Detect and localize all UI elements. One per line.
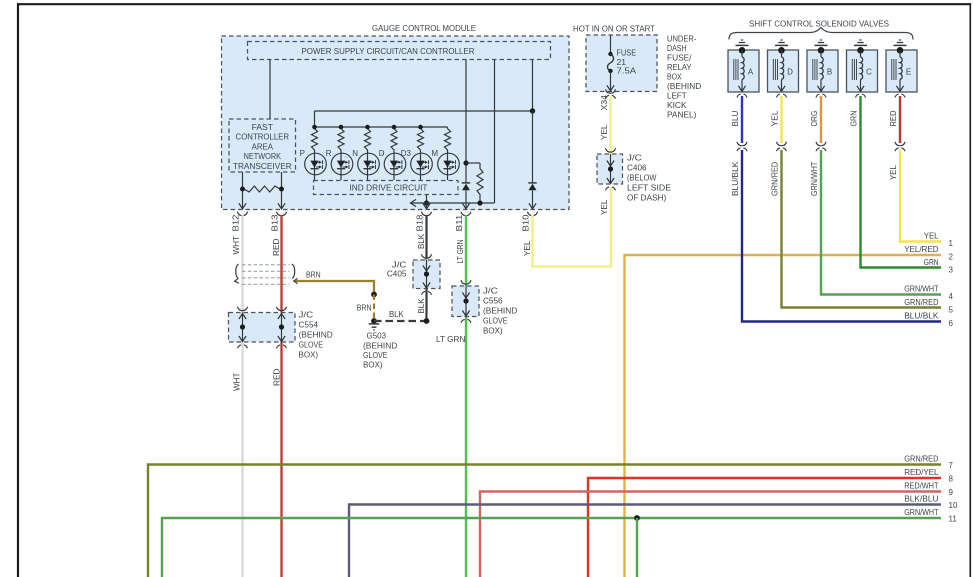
connector below solenoid C	[856, 94, 866, 97]
connector mid wire solenoid E	[895, 142, 905, 146]
svg-text:M: M	[431, 149, 438, 158]
svg-text:UNDER-: UNDER-	[667, 34, 697, 44]
wire B11 feed	[465, 60, 467, 183]
svg-text:D3: D3	[401, 149, 412, 158]
under-dash fuse/relay box	[586, 35, 657, 92]
LED M	[438, 153, 460, 175]
C554 internal WHT path	[242, 313, 244, 343]
wire YEL/RED line 2	[625, 255, 942, 577]
solenoid valve B	[807, 50, 838, 92]
svg-text:TRANSCEIVER: TRANSCEIVER	[233, 161, 292, 171]
svg-text:GLOVE: GLOVE	[363, 350, 388, 360]
svg-text:BLK: BLK	[416, 234, 426, 249]
LED D	[384, 153, 406, 175]
svg-text:B18: B18	[415, 214, 425, 231]
svg-text:3: 3	[949, 266, 954, 275]
svg-text:LT GRN: LT GRN	[436, 334, 465, 344]
svg-text:BOX: BOX	[667, 72, 682, 82]
connector cups above C554	[238, 307, 248, 311]
arrow off-page left	[411, 199, 417, 206]
connector cup above C405	[422, 254, 432, 258]
svg-text:D: D	[787, 68, 793, 77]
LED P	[305, 153, 327, 175]
coil solenoid E	[899, 50, 901, 57]
wire power supply to node C	[532, 60, 534, 112]
coil solenoid A	[741, 50, 743, 57]
svg-text:YEL: YEL	[599, 199, 609, 215]
wire BRN dashed to ground	[373, 295, 375, 319]
node B18 bus	[424, 200, 429, 205]
svg-text:A: A	[748, 68, 754, 77]
junction connector C556 box	[452, 286, 479, 317]
node BRN junction	[371, 292, 377, 298]
wire GRN/WHT solenoid B	[821, 150, 941, 295]
svg-text:BLU: BLU	[730, 111, 740, 127]
diode B10	[532, 111, 534, 183]
svg-text:GRN/WHT: GRN/WHT	[904, 284, 939, 294]
svg-text:YEL: YEL	[522, 240, 532, 256]
page border frame	[17, 3, 971, 5]
svg-text:BOX): BOX)	[363, 360, 383, 370]
svg-text:11: 11	[949, 515, 958, 524]
pin B10 arrow	[529, 203, 536, 209]
connector pin B13	[277, 212, 287, 216]
wire LT GRN B11 upper	[465, 215, 467, 286]
svg-text:OF DASH): OF DASH)	[627, 193, 666, 203]
svg-text:J/C: J/C	[483, 286, 498, 296]
wire YEL fuse to C406	[609, 97, 612, 155]
node bus R	[339, 125, 344, 130]
wire BLU solenoid A	[741, 96, 743, 143]
pin B13 arrow	[278, 203, 285, 209]
svg-text:DASH: DASH	[667, 43, 687, 53]
node bus D3	[418, 125, 423, 130]
svg-text:LEFT: LEFT	[667, 91, 687, 101]
coil solenoid B	[820, 50, 822, 57]
connector pin B12	[238, 212, 248, 216]
fast controller area network transceiver box	[229, 119, 296, 172]
svg-text:C554: C554	[299, 320, 319, 330]
wire GRN/RED solenoid D	[782, 150, 942, 308]
svg-text:GRN: GRN	[848, 111, 858, 127]
LED R	[331, 153, 353, 175]
LED D3	[411, 153, 433, 175]
svg-text:BRN: BRN	[306, 270, 321, 280]
svg-text:GRN/RED: GRN/RED	[904, 297, 938, 307]
junction connector C406 box	[597, 154, 623, 184]
svg-text:(BEHIND: (BEHIND	[363, 341, 397, 351]
svg-text:GRN/RED: GRN/RED	[904, 454, 938, 464]
wire GRN/WHT line 11	[162, 518, 941, 577]
svg-text:HOT IN ON OR START: HOT IN ON OR START	[573, 24, 656, 34]
svg-text:AREA: AREA	[252, 141, 274, 151]
wire YEL solenoid E	[900, 150, 941, 242]
wire RED B13 run	[280, 215, 282, 577]
resistor LED R	[338, 127, 344, 152]
wire ORG solenoid B	[820, 96, 822, 143]
svg-text:GRN/WHT: GRN/WHT	[809, 161, 819, 196]
wire power supply to transceiver	[269, 60, 271, 120]
svg-text:9: 9	[949, 488, 954, 497]
coil solenoid D	[781, 50, 783, 57]
gauge control module box	[222, 36, 570, 210]
svg-text:KICK: KICK	[667, 100, 687, 110]
svg-text:N: N	[352, 149, 358, 158]
resistor B11 pull	[477, 167, 483, 196]
svg-text:R: R	[326, 149, 332, 158]
svg-text:C405: C405	[387, 269, 407, 279]
svg-text:RED/WHT: RED/WHT	[904, 481, 939, 491]
connector cup below C556	[461, 319, 471, 322]
svg-text:SHIFT CONTROL SOLENOID VALVES: SHIFT CONTROL SOLENOID VALVES	[749, 19, 889, 29]
solenoid valve C	[847, 50, 878, 92]
svg-text:C: C	[866, 68, 872, 77]
svg-text:8: 8	[949, 475, 954, 484]
connector X34	[606, 89, 616, 93]
connector cup above C556	[461, 280, 471, 284]
fuse 21 7.5A	[610, 35, 612, 54]
node bus P	[312, 125, 317, 130]
connector below solenoid D	[777, 94, 787, 97]
svg-text:7.5A: 7.5A	[617, 66, 637, 76]
svg-text:(BELOW: (BELOW	[627, 173, 657, 183]
wire RED/YEL line 8	[588, 478, 941, 577]
svg-text:GLOVE: GLOVE	[299, 340, 324, 350]
svg-text:FUSE: FUSE	[617, 48, 637, 58]
svg-text:YEL: YEL	[769, 110, 779, 126]
svg-text:BLK: BLK	[389, 309, 404, 319]
svg-text:YEL: YEL	[888, 165, 898, 180]
svg-text:PANEL): PANEL)	[667, 110, 697, 120]
wire WHT B12 run	[241, 215, 243, 577]
pin B18 arrow	[423, 203, 430, 209]
svg-text:RELAY: RELAY	[667, 62, 692, 72]
svg-text:1: 1	[949, 239, 954, 248]
svg-text:(BEHIND: (BEHIND	[667, 81, 701, 91]
node resistor left	[240, 187, 245, 192]
svg-text:B12: B12	[231, 214, 241, 231]
svg-text:NETWORK: NETWORK	[244, 151, 282, 161]
svg-text:BLK: BLK	[416, 298, 426, 313]
svg-text:CONTROLLER: CONTROLLER	[236, 132, 290, 142]
wire BLU/BLK solenoid A	[742, 150, 941, 322]
svg-text:B: B	[827, 68, 832, 77]
C554 internal RED path	[281, 313, 283, 343]
svg-text:FUSE/: FUSE/	[667, 53, 692, 63]
svg-text:D: D	[379, 149, 385, 158]
svg-text:6: 6	[949, 319, 954, 328]
connector mid wire solenoid D	[777, 142, 787, 146]
wire transceiver pin B13 leg	[281, 172, 283, 209]
svg-text:P: P	[300, 149, 305, 158]
connector mid wire solenoid B	[816, 142, 826, 146]
svg-text:7: 7	[949, 461, 954, 470]
svg-text:GRN/RED: GRN/RED	[769, 162, 779, 196]
wire internal feed bus	[315, 110, 533, 112]
ground G503	[371, 318, 377, 324]
node bus D	[392, 125, 397, 130]
svg-text:(BEHIND: (BEHIND	[483, 306, 517, 316]
pin B11 arrow	[462, 203, 469, 209]
svg-text:C556: C556	[483, 296, 503, 306]
resistor LED D3	[418, 127, 424, 152]
svg-text:YEL: YEL	[599, 124, 609, 140]
svg-text:BOX): BOX)	[483, 326, 503, 336]
svg-text:RED: RED	[272, 369, 282, 387]
wire GRN/RED line 7	[148, 465, 941, 577]
ground solenoid E	[894, 44, 907, 46]
connector below solenoid B	[816, 94, 826, 97]
solenoid valve A	[728, 50, 759, 92]
resistor LED D	[391, 127, 397, 152]
IND drive circuit box	[314, 181, 459, 195]
connector cups below C554	[238, 345, 248, 348]
svg-text:YEL/RED: YEL/RED	[904, 244, 938, 254]
svg-text:J/C: J/C	[627, 153, 642, 163]
wire BLK/BLU line 10	[349, 505, 941, 577]
svg-text:BLK/BLU: BLK/BLU	[904, 494, 938, 504]
wire internal bus to off-page	[411, 202, 495, 204]
solenoid valve D	[768, 50, 799, 92]
arrow BRN tap	[294, 278, 298, 283]
svg-text:RED/YEL: RED/YEL	[904, 467, 939, 477]
svg-text:RED: RED	[271, 239, 281, 257]
ground solenoid C	[854, 44, 867, 46]
coil solenoid C	[860, 50, 862, 57]
connector pass-through ghost	[242, 264, 290, 266]
node bus N	[365, 125, 370, 130]
wire B18 leg	[426, 195, 428, 209]
wire BRN tap	[296, 281, 375, 295]
solenoid valve E	[886, 50, 917, 92]
wire BLK dashed ground link	[374, 320, 427, 322]
node resistor right	[279, 187, 284, 192]
connector pin B18	[422, 212, 432, 216]
svg-text:BLU/BLK: BLU/BLK	[904, 311, 939, 321]
connector cup below C406	[606, 187, 616, 190]
resistor LED N	[365, 127, 371, 152]
connector below solenoid E	[895, 94, 905, 97]
connector cup above C406	[606, 148, 616, 152]
svg-text:E: E	[906, 68, 911, 77]
svg-text:LEFT SIDE: LEFT SIDE	[627, 183, 671, 193]
svg-text:G503: G503	[367, 331, 387, 341]
wire power supply right leg	[494, 60, 496, 204]
node GRN/WHT branch	[634, 515, 640, 521]
svg-text:X34: X34	[599, 95, 609, 111]
svg-text:FAST: FAST	[252, 122, 274, 132]
wire BLK B18 run upper	[425, 215, 427, 260]
connector pin B10	[528, 212, 538, 216]
junction connector C554 box	[229, 313, 296, 343]
connector cup below C405	[422, 291, 432, 294]
svg-text:C406: C406	[627, 163, 647, 173]
svg-text:B13: B13	[270, 214, 280, 231]
wire transceiver pin B12 leg	[242, 172, 244, 209]
svg-text:B11: B11	[454, 214, 464, 231]
svg-text:10: 10	[949, 501, 958, 510]
ground solenoid B	[815, 44, 828, 46]
connector mid wire solenoid A	[737, 142, 747, 146]
wire RED/WHT line 9	[480, 492, 941, 577]
resistor CAN termination	[243, 186, 282, 192]
connector below solenoid A	[737, 94, 747, 97]
svg-text:BRN: BRN	[357, 303, 372, 313]
node resistor bottom	[477, 200, 482, 205]
svg-text:WHT: WHT	[231, 235, 241, 254]
junction connector C405 box	[413, 260, 440, 289]
wire YEL B10 to junction C406	[533, 188, 612, 267]
ground solenoid D	[775, 44, 788, 46]
svg-text:ORG: ORG	[809, 110, 819, 126]
svg-text:POWER SUPPLY CIRCUIT/CAN CONTR: POWER SUPPLY CIRCUIT/CAN CONTROLLER	[302, 46, 475, 56]
LED N	[358, 153, 380, 175]
brace solenoid group	[729, 28, 913, 40]
wire GRN branch down	[636, 518, 638, 577]
wire bus drop	[314, 111, 316, 127]
wire LT GRN B11 lower run	[465, 317, 467, 577]
svg-text:GAUGE CONTROL MODULE: GAUGE CONTROL MODULE	[372, 23, 476, 33]
wire resistor bus	[315, 126, 448, 128]
wire RED solenoid E	[899, 96, 901, 143]
power supply circuit/CAN controller box	[248, 42, 551, 60]
resistor LED P	[312, 127, 318, 152]
connector pin B11	[461, 212, 471, 216]
wire resistor tap	[466, 162, 480, 164]
resistor LED M	[445, 127, 451, 152]
svg-text:IND DRIVE CIRCUIT: IND DRIVE CIRCUIT	[350, 183, 429, 193]
svg-text:BLU/BLK: BLU/BLK	[730, 161, 740, 196]
node B11 resistor tap	[463, 160, 468, 165]
diode B11	[462, 184, 470, 191]
svg-text:LT GRN: LT GRN	[455, 240, 465, 264]
wire YEL solenoid D	[780, 96, 782, 143]
svg-text:B10: B10	[521, 214, 531, 231]
svg-text:GRN/WHT: GRN/WHT	[904, 507, 939, 517]
node BLK junction C405	[424, 318, 430, 324]
svg-text:J/C: J/C	[299, 310, 314, 320]
ground solenoid A	[736, 44, 749, 46]
svg-text:YEL: YEL	[924, 231, 939, 241]
svg-text:BOX): BOX)	[299, 350, 319, 360]
svg-text:2: 2	[949, 253, 954, 262]
wire GRN solenoid C run	[861, 96, 942, 268]
svg-text:GLOVE: GLOVE	[483, 316, 508, 326]
node C	[530, 108, 535, 113]
svg-text:(BEHIND: (BEHIND	[299, 330, 333, 340]
svg-text:4: 4	[949, 292, 954, 301]
pin B12 arrow	[239, 203, 246, 209]
svg-text:WHT: WHT	[232, 372, 242, 391]
svg-text:5: 5	[949, 306, 954, 315]
svg-text:RED: RED	[888, 111, 898, 127]
wire BLK B18 run lower	[425, 289, 427, 322]
svg-text:GRN: GRN	[924, 257, 939, 267]
